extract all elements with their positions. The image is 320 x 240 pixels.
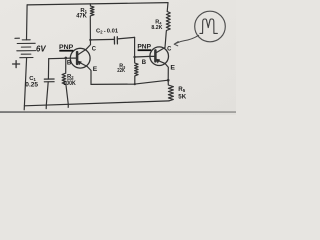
wire node to C2 xyxy=(90,38,114,41)
node dot R5 tee xyxy=(167,79,170,82)
node base of Q1 / wire to C1 xyxy=(49,57,71,60)
svg-text:E: E xyxy=(93,66,98,73)
waveform xyxy=(200,19,218,33)
Q1 emitter arrowhead xyxy=(78,61,82,65)
transistor Q2 PNP xyxy=(150,47,169,66)
transistor Q1 PNP xyxy=(70,48,90,68)
svg-text:E: E xyxy=(170,65,175,72)
wire bottom rail xyxy=(24,101,169,106)
svg-text:B: B xyxy=(67,59,72,66)
wire mid rail emitters to R3 R5 node xyxy=(91,80,168,84)
battery B1 6V xyxy=(17,40,36,58)
Q2 emitter arrowhead xyxy=(156,59,160,63)
svg-text:8.2K: 8.2K xyxy=(151,25,163,31)
svg-text:100K: 100K xyxy=(63,81,76,87)
capacitor C2 0.01 xyxy=(114,37,117,44)
node dot R2 tee xyxy=(65,57,68,60)
svg-text:C2 - 0.01: C2 - 0.01 xyxy=(96,29,119,35)
node dot collector R1 C2 xyxy=(89,39,91,41)
svg-text:0.25: 0.25 xyxy=(25,81,38,88)
svg-text:47K: 47K xyxy=(76,13,87,20)
capacitor C1 0.25 xyxy=(44,79,54,82)
svg-text:B: B xyxy=(142,59,147,66)
output symbol circle with sawtooth waveform xyxy=(195,11,226,42)
wire Q2 emitter down xyxy=(165,64,168,81)
wire Q1 collector up to node xyxy=(86,40,90,49)
wire Q1 emitter down xyxy=(87,67,91,85)
resistor R5 5K xyxy=(168,80,173,101)
wire stub below rail at C1 xyxy=(45,105,47,108)
wire top rail xyxy=(27,3,168,5)
svg-text:R5: R5 xyxy=(178,86,185,93)
svg-text:PNP: PNP xyxy=(137,43,151,50)
resistor R2 100K xyxy=(62,58,68,105)
wire C2 to corner xyxy=(118,37,135,39)
minus sign xyxy=(15,37,19,39)
node dot R3 bottom xyxy=(134,83,136,85)
annotation arrow to output xyxy=(174,35,199,46)
resistor R3 22K xyxy=(135,57,139,84)
wire base node to Q2 xyxy=(135,55,151,58)
wire stub below rail at R2 xyxy=(67,105,69,108)
wire corner down to Q2 base node xyxy=(134,37,136,57)
svg-text:C: C xyxy=(167,45,172,52)
wire battery positive lead down to bottom rail xyxy=(24,58,26,110)
svg-text:C: C xyxy=(92,45,97,52)
plus sign xyxy=(13,61,20,68)
svg-text:22K: 22K xyxy=(117,68,125,74)
wire C1 bottom lead xyxy=(46,82,48,105)
resistor R1 47K xyxy=(90,4,94,40)
bottom border of figure xyxy=(0,111,236,113)
node dot R3 tee xyxy=(133,56,135,58)
wire left drop from rail to battery xyxy=(26,5,29,40)
wire C1 top lead xyxy=(47,59,49,79)
svg-text:5K: 5K xyxy=(178,94,186,101)
svg-text:6V: 6V xyxy=(36,45,46,54)
resistor R4 8.2K xyxy=(165,3,170,48)
